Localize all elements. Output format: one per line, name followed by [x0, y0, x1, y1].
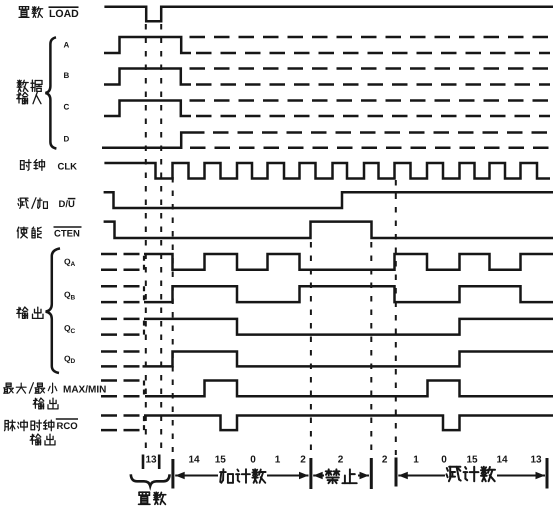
waveform QA dashed load edge — [143, 254, 145, 270]
svg-text:CLK: CLK — [58, 162, 78, 173]
waveform A don't-care high dashes — [190, 36, 551, 39]
waveform B don't-care low dashes — [196, 83, 550, 86]
signal label 最大/最小 — [4, 383, 14, 393]
waveform QD — [143, 352, 554, 367]
waveform LOAD: high with low pulse 146-161 — [104, 7, 553, 22]
svg-text:15: 15 — [466, 455, 478, 466]
waveform QD unknown stubs — [101, 350, 141, 353]
down-count left arrow — [398, 475, 445, 477]
dashed line at load end — [160, 24, 162, 452]
svg-text:CTEN: CTEN — [54, 229, 80, 240]
waveform QC unknown stubs — [101, 318, 141, 321]
waveform MAX/MIN with two pulses — [145, 381, 553, 397]
svg-text:2: 2 — [300, 455, 306, 466]
label 禁止 — [326, 469, 340, 483]
dashed line at inhibit start — [310, 242, 312, 456]
waveform data input A pulse — [104, 37, 191, 53]
svg-text:MAX/MIN: MAX/MIN — [63, 385, 106, 396]
overline for CTEN — [54, 226, 82, 228]
label 加计数 — [220, 469, 233, 483]
waveform D don't-care high dashes — [213, 131, 550, 134]
svg-text:D: D — [71, 358, 76, 365]
signal label 脉冲时钟 — [5, 420, 16, 431]
waveform QB dashed load edge — [143, 286, 145, 302]
svg-text:0: 0 — [441, 455, 447, 466]
label 减计数 — [447, 467, 461, 481]
signal label 置数 — [19, 7, 29, 18]
brace under load interval — [131, 474, 170, 486]
section bar down-count start — [395, 458, 398, 487]
waveform CLK square wave — [104, 163, 550, 179]
svg-text:D/U: D/U — [59, 199, 76, 210]
brace for outputs — [46, 248, 60, 373]
group label 数据输入 line1 — [17, 80, 28, 91]
svg-text:13: 13 — [530, 455, 542, 466]
section bar inhibit end — [370, 458, 373, 489]
waveform MAX/MIN unknown stubs — [101, 379, 141, 382]
svg-text:1: 1 — [275, 455, 281, 466]
inhibit right arrow — [358, 475, 369, 477]
waveform data input C pulse — [104, 101, 191, 117]
waveform D don't-care low dashes — [190, 146, 550, 149]
overline for LOAD — [49, 6, 79, 8]
signal label 减/加 — [18, 198, 28, 208]
waveform B don't-care high dashes — [190, 67, 551, 70]
waveform QB — [144, 286, 553, 302]
signal label 使能 — [17, 227, 28, 238]
dashed line at load start — [145, 24, 147, 452]
svg-text:14: 14 — [496, 455, 508, 466]
waveform D/U down-then-up — [104, 192, 553, 208]
group label 输出 — [17, 307, 28, 318]
waveform QA toggling — [144, 254, 553, 270]
svg-text:15: 15 — [215, 455, 227, 466]
waveform QC — [144, 319, 553, 335]
svg-text:RCO: RCO — [57, 421, 78, 432]
dashed line at first clock rise — [172, 177, 174, 452]
overline for RCO — [56, 418, 78, 420]
section bar inhibit start — [309, 458, 312, 489]
waveform CTEN enable with inhibit pulse — [104, 222, 553, 238]
dashed line at inhibit end — [370, 242, 372, 456]
svg-text:D: D — [64, 134, 70, 143]
svg-text:0: 0 — [250, 455, 256, 466]
svg-text:2: 2 — [338, 455, 344, 466]
svg-text:B: B — [64, 71, 70, 80]
svg-text:A: A — [71, 261, 76, 268]
group label 数据输入 line2 — [17, 92, 28, 103]
up-count left arrow — [175, 475, 218, 477]
waveform QC dashed load edge — [143, 319, 145, 335]
svg-text:13: 13 — [145, 455, 157, 466]
svg-text:B: B — [71, 294, 76, 301]
waveform RCO unknown stubs — [101, 414, 141, 417]
waveform A don't-care low dashes — [196, 52, 550, 55]
count box bar left — [142, 455, 145, 470]
overline for U — [68, 198, 76, 200]
waveform QB unknown stubs — [101, 285, 141, 288]
waveform MAX/MIN dashed load edge — [143, 381, 145, 397]
signal label 输出 (MAX/MIN) — [33, 398, 44, 409]
down-count right arrow — [497, 475, 545, 477]
waveform data input D low-then-rise — [102, 133, 205, 148]
dashed line at down-count start — [395, 180, 397, 455]
svg-text:C: C — [71, 328, 76, 335]
waveform QA unknown stubs — [101, 253, 141, 256]
svg-text:LOAD: LOAD — [49, 8, 79, 20]
svg-text:1: 1 — [413, 455, 419, 466]
label 置数 (load) — [139, 492, 150, 504]
svg-text:2: 2 — [382, 455, 388, 466]
brace for data inputs — [45, 37, 56, 148]
svg-text:14: 14 — [188, 455, 200, 466]
signal label 时钟 — [21, 160, 32, 171]
up-count right arrow — [267, 475, 309, 477]
inhibit left arrow — [313, 475, 324, 477]
svg-text:A: A — [64, 41, 70, 50]
section bar right end — [546, 458, 549, 489]
waveform C don't-care low dashes — [196, 115, 550, 118]
waveform data input B pulse — [104, 69, 191, 85]
svg-text:C: C — [64, 103, 70, 112]
waveform RCO dashed load edge — [143, 416, 145, 431]
signal label 输出 (RCO) — [30, 434, 41, 445]
waveform C don't-care high dashes — [190, 99, 551, 102]
waveform RCO with two low pulses — [144, 416, 553, 431]
section bar up-count start — [171, 459, 174, 489]
count box bar right — [158, 455, 161, 470]
